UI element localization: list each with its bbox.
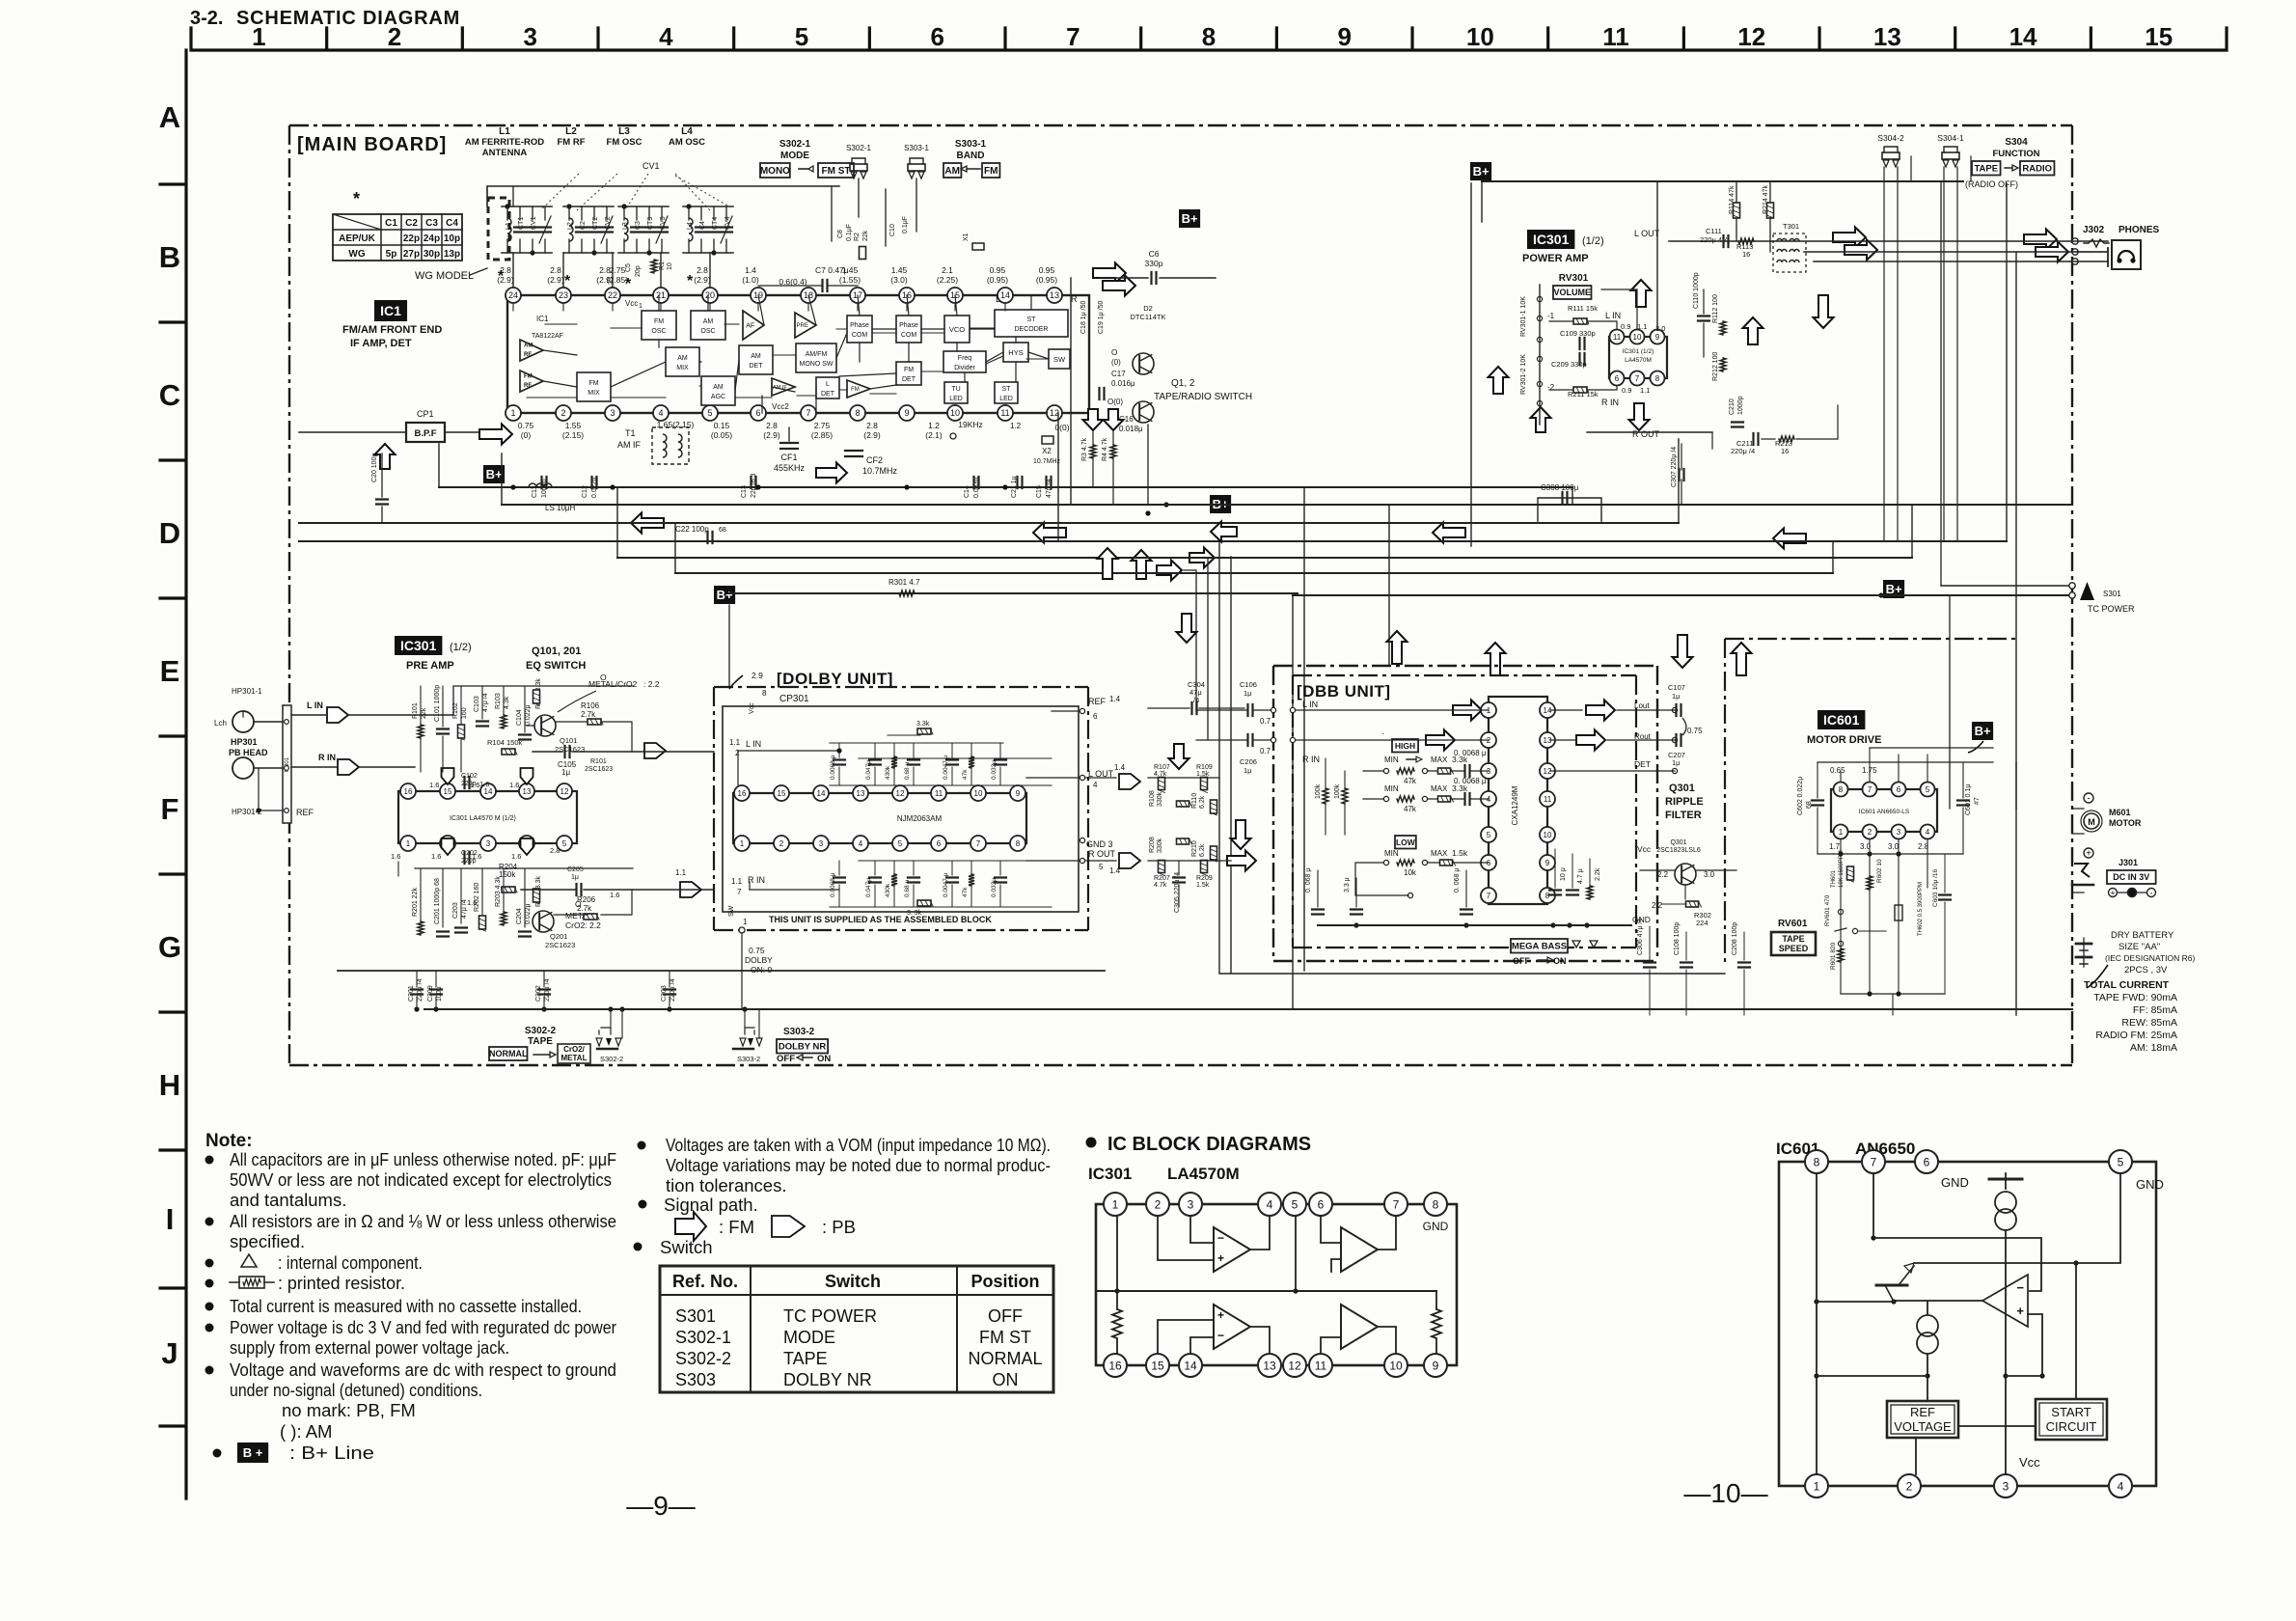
svg-text:1.4: 1.4 (745, 265, 756, 275)
svg-text:IC601: IC601 (1823, 712, 1860, 728)
svg-text:6: 6 (1897, 785, 1901, 794)
svg-text:1.1: 1.1 (1640, 386, 1650, 395)
svg-text:C210: C210 (1729, 398, 1736, 415)
svg-text:−: − (2016, 1280, 2024, 1295)
svg-text:0. 068 μ: 0. 068 μ (1305, 868, 1312, 893)
svg-text:FUNCTION: FUNCTION (1992, 149, 2039, 159)
svg-text:: PB: : PB (822, 1217, 856, 1237)
svg-text:RADIO FM: 25mA: RADIO FM: 25mA (2095, 1030, 2177, 1041)
svg-text:Position: Position (971, 1272, 1040, 1291)
svg-text:C4: C4 (446, 218, 458, 229)
svg-text:C4: C4 (699, 221, 706, 230)
svg-text:47k: 47k (1404, 777, 1417, 785)
svg-text:C3: C3 (635, 221, 642, 230)
svg-text:CF1: CF1 (780, 453, 797, 462)
svg-text:R1: R1 (659, 261, 666, 270)
svg-text:R101: R101 (412, 702, 419, 719)
svg-text:Voltages are taken with a VOM: Voltages are taken with a VOM (input imp… (666, 1135, 1051, 1155)
svg-text:(2.1): (2.1) (925, 430, 943, 440)
svg-text:C208 100p: C208 100p (1732, 922, 1738, 955)
svg-text:+: + (2016, 1304, 2024, 1318)
svg-text:13: 13 (1263, 1359, 1276, 1372)
svg-text:14: 14 (2009, 22, 2037, 51)
svg-text:2.8: 2.8 (550, 846, 560, 855)
svg-text:—9—: —9— (626, 1491, 696, 1521)
svg-text:C111: C111 (1706, 227, 1722, 235)
svg-text:METAL/CrO2: METAL/CrO2 (588, 679, 638, 689)
svg-text:0. 068 μ: 0. 068 μ (1454, 868, 1461, 893)
svg-text:D: D (159, 516, 180, 550)
svg-text:1.7: 1.7 (1829, 842, 1841, 851)
svg-text:4.7k: 4.7k (1154, 882, 1167, 889)
svg-text:MODE: MODE (780, 151, 809, 161)
svg-text:THIS UNIT IS SUPPLIED AS THE A: THIS UNIT IS SUPPLIED AS THE ASSEMBLED B… (769, 915, 992, 924)
svg-text:specified.: specified. (230, 1231, 305, 1251)
svg-text:Phase: Phase (850, 322, 869, 329)
svg-text:1: 1 (1112, 1197, 1119, 1211)
svg-text:FM OSC: FM OSC (607, 137, 642, 148)
svg-text:3: 3 (819, 839, 824, 848)
svg-text:CF2: CF2 (866, 455, 883, 465)
svg-text:68: 68 (719, 527, 726, 534)
svg-text:1: 1 (1839, 828, 1844, 837)
svg-text:2.2k: 2.2k (1595, 867, 1601, 881)
svg-text:5: 5 (1099, 863, 1104, 871)
svg-text:1.6: 1.6 (431, 852, 441, 861)
svg-text:9: 9 (1016, 789, 1021, 798)
svg-text:REF: REF (1088, 697, 1107, 706)
svg-text:1: 1 (510, 408, 515, 418)
svg-text:R601 820: R601 820 (1830, 942, 1837, 970)
svg-text:DET: DET (902, 376, 916, 383)
svg-text:0.9: 0.9 (1622, 386, 1631, 395)
svg-text:(2.9): (2.9) (694, 275, 711, 285)
svg-text:9: 9 (1655, 333, 1660, 342)
svg-text:1μ: 1μ (1244, 766, 1252, 775)
svg-text:C110 1000p: C110 1000p (1693, 272, 1700, 309)
svg-text:4: 4 (859, 839, 863, 848)
svg-text:4: 4 (659, 22, 673, 51)
svg-text:C109 330p: C109 330p (1560, 329, 1596, 338)
svg-text:MOTOR: MOTOR (2109, 818, 2142, 828)
svg-text:C20 100μ: C20 100μ (371, 453, 378, 483)
svg-text:IC BLOCK DIAGRAMS: IC BLOCK DIAGRAMS (1107, 1134, 1311, 1155)
svg-text:(0.95): (0.95) (1036, 275, 1057, 285)
svg-text:Vcc: Vcc (2019, 1455, 2040, 1470)
svg-text:Freq: Freq (958, 355, 972, 362)
svg-text:47k: 47k (962, 769, 969, 780)
svg-text:Q301: Q301 (1670, 839, 1686, 846)
svg-text:MIN: MIN (1384, 784, 1399, 793)
svg-text:MONO SW: MONO SW (800, 361, 834, 368)
svg-text:1.6: 1.6 (509, 781, 519, 789)
svg-text:R OUT: R OUT (1632, 429, 1660, 439)
svg-text:15: 15 (1151, 1359, 1164, 1372)
svg-text:O(0): O(0) (1107, 398, 1123, 406)
svg-text:2.75: 2.75 (814, 421, 831, 430)
svg-text:TU: TU (951, 386, 960, 393)
svg-text:NORMAL: NORMAL (968, 1349, 1042, 1368)
svg-text:B+: B+ (717, 588, 733, 602)
svg-text:16: 16 (404, 787, 413, 796)
svg-text:7: 7 (1635, 374, 1640, 383)
svg-text:Signal path.: Signal path. (664, 1195, 758, 1215)
svg-text:S302-2: S302-2 (675, 1349, 731, 1368)
svg-text:IC1: IC1 (380, 303, 401, 318)
svg-text:C307 220μ /4: C307 220μ /4 (1671, 447, 1678, 487)
svg-text:R110: R110 (1191, 793, 1198, 809)
svg-text:DRY BATTERY: DRY BATTERY (2111, 930, 2174, 941)
svg-text:50WV or less are not indicated: 50WV or less are not indicated except fo… (230, 1169, 612, 1190)
svg-text:NJM2063AM: NJM2063AM (897, 814, 943, 823)
svg-text:OFF: OFF (1513, 956, 1530, 966)
svg-text:12: 12 (1737, 22, 1765, 51)
svg-text:R206: R206 (577, 895, 596, 904)
svg-text:Voltage and waveforms are: Voltage and waveforms are dc with respec… (230, 1360, 616, 1380)
svg-text:(0.05): (0.05) (711, 430, 732, 440)
svg-text:R203 4.3k: R203 4.3k (495, 876, 502, 907)
svg-text:7: 7 (1066, 22, 1080, 51)
svg-text:tion tolerances.: tion tolerances. (666, 1175, 786, 1195)
svg-text:330p: 330p (1145, 259, 1163, 268)
svg-text:24p: 24p (424, 234, 440, 244)
svg-text:(0): (0) (1111, 358, 1121, 367)
svg-text:0.95: 0.95 (990, 265, 1006, 275)
svg-text:1: 1 (406, 839, 411, 848)
svg-text:DOLBY NR: DOLBY NR (783, 1370, 872, 1389)
svg-text:FF: 85mA: FF: 85mA (2133, 1004, 2177, 1016)
svg-text:AM: AM (703, 318, 714, 325)
svg-text:·: · (1381, 728, 1384, 739)
svg-text:2.75: 2.75 (610, 265, 626, 275)
svg-text:2.2: 2.2 (1652, 901, 1663, 910)
svg-text:2.7k: 2.7k (577, 904, 592, 913)
svg-text:R108: R108 (1149, 790, 1156, 807)
svg-text:2.8: 2.8 (500, 265, 511, 275)
svg-text:TAPE: TAPE (783, 1349, 828, 1368)
svg-text:IC301: IC301 (1088, 1165, 1132, 1183)
svg-text:3: 3 (610, 408, 615, 418)
svg-text:7: 7 (737, 888, 742, 896)
svg-text:All resistors are in Ω an: All resistors are in Ω and ⅛ W or less u… (230, 1211, 616, 1231)
svg-text:SIZE "AA": SIZE "AA" (2118, 942, 2160, 952)
svg-text:Ref. No.: Ref. No. (672, 1272, 738, 1291)
svg-text:8: 8 (1839, 785, 1844, 794)
svg-text:1.6: 1.6 (391, 852, 400, 861)
svg-text:S302-2: S302-2 (525, 1026, 557, 1036)
svg-text:AM IF: AM IF (617, 440, 642, 450)
svg-text:VOLUME: VOLUME (1553, 288, 1591, 297)
svg-text:R202 160: R202 160 (474, 883, 480, 912)
svg-text:10.7MHz: 10.7MHz (862, 466, 898, 476)
svg-text:MAX: MAX (1431, 756, 1448, 764)
svg-text:S304-1: S304-1 (1937, 133, 1964, 143)
svg-text:6.2k: 6.2k (1199, 843, 1206, 857)
svg-text:METAL: METAL (561, 1054, 588, 1062)
svg-text:TC POWER: TC POWER (2088, 604, 2135, 614)
svg-text:1: 1 (1814, 1479, 1820, 1493)
svg-text:0.0047 μ: 0.0047 μ (943, 872, 949, 897)
svg-text:R OUT: R OUT (1088, 849, 1116, 859)
svg-text:B+: B+ (1886, 582, 1902, 596)
svg-text:ANTENNA: ANTENNA (482, 148, 528, 158)
svg-text:MAX: MAX (1431, 849, 1448, 858)
svg-text:CrO2/: CrO2/ (563, 1045, 586, 1054)
svg-text:3.0: 3.0 (1704, 870, 1715, 879)
svg-text:11: 11 (1000, 408, 1009, 418)
svg-text:S304-2: S304-2 (1877, 133, 1904, 143)
svg-text:2: 2 (560, 408, 565, 418)
svg-text:1: 1 (639, 303, 642, 310)
svg-text:IF AMP, DET: IF AMP, DET (350, 338, 412, 349)
svg-text:HP301: HP301 (231, 737, 258, 747)
svg-text:2.8: 2.8 (866, 421, 878, 430)
svg-text:0.0068 μ: 0.0068 μ (830, 872, 836, 897)
svg-text:C201 1000p 68: C201 1000p 68 (434, 878, 441, 924)
svg-text:CP301: CP301 (779, 694, 809, 704)
svg-text:3.3 μ: 3.3 μ (1344, 877, 1351, 893)
svg-text:21: 21 (656, 290, 666, 300)
svg-text:ON: ON (993, 1370, 1019, 1389)
svg-text:4: 4 (2118, 1479, 2124, 1493)
svg-text:16: 16 (1108, 1359, 1122, 1372)
svg-text:6.2k: 6.2k (1199, 795, 1206, 809)
svg-text:9: 9 (904, 408, 909, 418)
svg-text:IC301: IC301 (1533, 232, 1570, 247)
svg-text:TAPE: TAPE (1782, 934, 1804, 944)
svg-text:(2.85): (2.85) (811, 430, 833, 440)
svg-text:L3: L3 (618, 126, 630, 137)
svg-text:DC IN 3V: DC IN 3V (2113, 872, 2149, 882)
svg-text:5: 5 (1292, 1197, 1298, 1211)
svg-text:(2.85): (2.85) (607, 275, 628, 285)
svg-text:CrO2: 2.2: CrO2: 2.2 (565, 920, 601, 930)
svg-text:(IEC DESIGNATION R6): (IEC DESIGNATION R6) (2105, 953, 2196, 963)
svg-text:R4 4.7k: R4 4.7k (1102, 437, 1108, 461)
svg-text:8: 8 (1202, 22, 1216, 51)
svg-text:( ): AM: ( ): AM (280, 1421, 332, 1442)
svg-text:4: 4 (1093, 781, 1098, 789)
svg-text:B +: B + (243, 1445, 263, 1460)
svg-text:2: 2 (388, 22, 401, 51)
svg-text:Phase: Phase (899, 322, 918, 329)
svg-text:L: L (826, 381, 830, 388)
svg-text:(RADIO OFF): (RADIO OFF) (1965, 179, 2018, 189)
svg-text:3: 3 (2003, 1479, 2009, 1493)
svg-text:OSC: OSC (700, 328, 715, 335)
svg-text:ON: ON (817, 1054, 831, 1064)
svg-text:C205: C205 (567, 866, 584, 873)
svg-text:R: R (1071, 294, 1078, 304)
svg-text:15: 15 (444, 787, 452, 796)
svg-text:10: 10 (1633, 333, 1642, 342)
svg-text:: B+ Line: : B+ Line (289, 1442, 374, 1463)
svg-text:0.022μ: 0.022μ (525, 903, 532, 924)
svg-text:1.2: 1.2 (928, 421, 940, 430)
svg-text:0.75: 0.75 (749, 946, 765, 955)
svg-text:All capacitors are in μF unles: All capacitors are in μF unless otherwis… (230, 1149, 616, 1169)
svg-text:13: 13 (523, 787, 532, 796)
svg-text:5: 5 (2118, 1155, 2124, 1168)
svg-text:L4: L4 (687, 222, 694, 230)
svg-text:L1: L1 (499, 126, 510, 137)
svg-text:TAPE FWD: 90mA: TAPE FWD: 90mA (2093, 992, 2177, 1003)
svg-text:11: 11 (1602, 22, 1629, 51)
svg-text:1μ: 1μ (1672, 758, 1681, 767)
svg-text:Lout: Lout (1634, 701, 1650, 710)
svg-text:(2.25): (2.25) (937, 275, 958, 285)
svg-text:AM: AM (944, 166, 960, 177)
svg-text:8: 8 (855, 408, 860, 418)
svg-text:C602 0.022μ: C602 0.022μ (1797, 777, 1804, 815)
svg-text:and tantalums.: and tantalums. (230, 1190, 346, 1210)
svg-text:2: 2 (1868, 828, 1872, 837)
svg-text:L OUT: L OUT (1634, 229, 1660, 238)
svg-text:430k: 430k (885, 765, 891, 780)
svg-text:(2.9): (2.9) (547, 275, 564, 285)
svg-text:SW: SW (1053, 355, 1066, 364)
svg-text:4: 4 (658, 408, 663, 418)
svg-text:430k: 430k (885, 883, 891, 897)
svg-text:C106: C106 (1240, 680, 1257, 689)
svg-text:Q101: Q101 (560, 736, 577, 745)
svg-text:[DOLBY UNIT]: [DOLBY UNIT] (777, 670, 893, 688)
svg-text:S302-1: S302-1 (675, 1328, 731, 1347)
svg-text:A: A (159, 100, 180, 134)
svg-text:WG MODEL: WG MODEL (415, 270, 474, 282)
svg-text:330k: 330k (1157, 791, 1163, 807)
svg-text:GND: GND (1941, 1175, 1969, 1190)
svg-text:0.1μF: 0.1μF (846, 224, 853, 241)
svg-text:1.45: 1.45 (891, 265, 908, 275)
svg-text:7: 7 (976, 839, 981, 848)
svg-text:F: F (161, 792, 179, 826)
svg-text:27p: 27p (403, 249, 420, 260)
svg-text:E: E (160, 654, 180, 688)
svg-text:C107: C107 (1668, 683, 1685, 692)
svg-text:Divider: Divider (954, 365, 975, 371)
svg-text:6: 6 (937, 839, 942, 848)
svg-text:Lch: Lch (214, 719, 227, 728)
svg-text:1.1: 1.1 (729, 738, 741, 747)
svg-text:6: 6 (755, 408, 760, 418)
svg-text:3: 3 (1188, 1197, 1194, 1211)
svg-text:(1/2): (1/2) (450, 642, 472, 653)
svg-text:AM: AM (677, 355, 688, 362)
svg-text:10K 1500PPM: 10K 1500PPM (1839, 850, 1845, 888)
svg-text:6: 6 (1615, 374, 1620, 383)
svg-text:Note:: Note: (205, 1131, 253, 1151)
svg-text:12: 12 (1288, 1359, 1301, 1372)
svg-text:S302-1: S302-1 (779, 139, 811, 150)
svg-text:R111 15k: R111 15k (1568, 304, 1598, 313)
svg-text:: internal component.: : internal component. (278, 1252, 423, 1273)
svg-text:2.8: 2.8 (766, 421, 778, 430)
svg-text:S303-2: S303-2 (737, 1055, 760, 1063)
svg-text:-1: -1 (1547, 312, 1555, 320)
svg-text:1.2: 1.2 (1010, 422, 1022, 430)
svg-text:C5: C5 (625, 263, 632, 272)
svg-text:2SC1623: 2SC1623 (585, 766, 613, 773)
svg-text:L IN: L IN (307, 701, 323, 710)
svg-text:FM: FM (654, 318, 664, 325)
svg-text:8: 8 (1814, 1155, 1820, 1168)
svg-text:7: 7 (806, 408, 810, 418)
svg-text:(1.0): (1.0) (742, 275, 759, 285)
svg-text:CP1: CP1 (417, 409, 434, 419)
svg-text:HP301-1: HP301-1 (232, 687, 262, 696)
svg-text:0.022μ: 0.022μ (525, 704, 532, 726)
svg-text:1.4: 1.4 (1109, 695, 1121, 703)
svg-text:LED: LED (949, 396, 963, 402)
svg-text:2.8: 2.8 (697, 265, 708, 275)
svg-text:TC POWER: TC POWER (783, 1306, 877, 1326)
svg-text:1.5k: 1.5k (1452, 848, 1468, 858)
svg-text:TAPE: TAPE (1974, 164, 1998, 175)
svg-text:TH601: TH601 (1831, 869, 1837, 888)
svg-text:1.6: 1.6 (511, 852, 521, 861)
svg-text:5p: 5p (386, 249, 397, 260)
svg-text:DTC114TK: DTC114TK (1131, 313, 1166, 321)
svg-text:1.6: 1.6 (467, 898, 477, 907)
svg-text:J302: J302 (2083, 225, 2105, 235)
svg-text:[MAIN BOARD]: [MAIN BOARD] (297, 134, 447, 155)
svg-text:14: 14 (1000, 290, 1010, 300)
svg-text:R201 22k: R201 22k (412, 888, 419, 917)
svg-text:13: 13 (1050, 290, 1059, 300)
svg-text:MAX: MAX (1431, 784, 1448, 793)
svg-text:AM/FM: AM/FM (806, 351, 828, 358)
svg-text:TAPE: TAPE (528, 1036, 553, 1047)
svg-text:HIGH: HIGH (1395, 741, 1415, 751)
svg-text:0.15: 0.15 (714, 421, 730, 430)
svg-text:RV301-2 10K: RV301-2 10K (1520, 354, 1527, 395)
svg-text:R210: R210 (1191, 840, 1198, 857)
svg-text:1.6: 1.6 (429, 781, 439, 789)
svg-text:8: 8 (1433, 1197, 1439, 1211)
svg-text:Vcc: Vcc (749, 702, 755, 714)
svg-text:(2.9): (2.9) (763, 430, 780, 440)
svg-text:C2: C2 (405, 218, 418, 229)
svg-text:: 2.2: : 2.2 (643, 679, 660, 689)
svg-text:22p: 22p (403, 234, 420, 244)
svg-text:15: 15 (778, 789, 786, 798)
svg-text:1.4: 1.4 (1109, 866, 1121, 875)
svg-text:L1: L1 (506, 222, 512, 230)
svg-text:13p: 13p (444, 249, 460, 260)
svg-text:22k: 22k (421, 707, 427, 719)
svg-text:160: 160 (461, 707, 468, 719)
svg-text:L2: L2 (567, 222, 574, 230)
svg-text:9: 9 (1545, 859, 1550, 867)
svg-text:J: J (161, 1336, 178, 1370)
svg-text:23: 23 (559, 290, 568, 300)
svg-text:20: 20 (705, 290, 715, 300)
svg-text:6: 6 (1318, 1197, 1325, 1211)
svg-text:R212 100: R212 100 (1712, 352, 1719, 381)
svg-text:Q201: Q201 (550, 932, 567, 941)
svg-text:10p: 10p (444, 234, 460, 244)
svg-text:22: 22 (608, 290, 617, 300)
svg-text:AM FERRITE-ROD: AM FERRITE-ROD (465, 137, 544, 148)
svg-text:-: - (2150, 889, 2153, 898)
svg-text:0.018μ: 0.018μ (1119, 425, 1143, 433)
svg-text:3: 3 (523, 22, 536, 51)
svg-text:TH602 0.5 3900PPM: TH602 0.5 3900PPM (1918, 882, 1924, 936)
svg-text:RADIO: RADIO (2022, 164, 2052, 175)
svg-text:10k: 10k (1404, 868, 1417, 877)
svg-text:*: * (687, 273, 694, 289)
